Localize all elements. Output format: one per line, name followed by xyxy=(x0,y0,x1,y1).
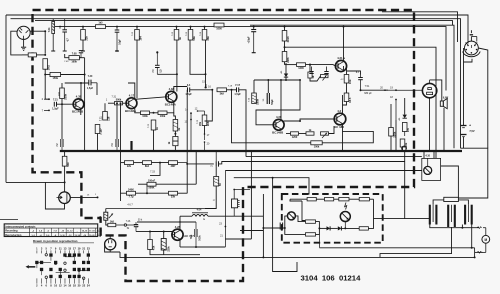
wire w row2 xyxy=(152,162,169,164)
svg-text:20: 20 xyxy=(380,87,383,90)
chassis shield dashed boundary xyxy=(33,10,415,281)
svg-text:4.21 a: 4.21 a xyxy=(337,56,345,60)
svg-text:1200: 1200 xyxy=(298,67,304,70)
node n R10 xyxy=(204,26,206,28)
wire osc w3 xyxy=(330,227,338,229)
wire w R15 down xyxy=(97,134,99,152)
wire w C10 up xyxy=(267,80,269,93)
bus lamp circle xyxy=(402,146,407,151)
svg-text:24: 24 xyxy=(87,284,90,288)
wire w R8 col xyxy=(176,40,178,92)
resistor R26 1k xyxy=(306,129,314,135)
svg-text:118: 118 xyxy=(106,116,110,121)
transistor Q4 BC148B xyxy=(272,115,284,134)
wire osc top wire2 xyxy=(316,198,324,200)
node n D1 xyxy=(285,79,287,81)
svg-text:13–14: 13–14 xyxy=(75,234,81,237)
svg-text:50: 50 xyxy=(263,98,265,101)
wire w R29 mid xyxy=(284,41,286,52)
wire w head stem xyxy=(109,250,111,252)
svg-text:4.1: 4.1 xyxy=(280,70,283,74)
capacitor C2 xyxy=(115,27,122,51)
resistor R17 100k xyxy=(141,111,150,118)
wire w r42 xyxy=(178,192,188,194)
svg-text:10µF: 10µF xyxy=(119,39,122,45)
wire w bat down xyxy=(463,137,465,149)
svg-text:180k: 180k xyxy=(255,98,259,104)
wire w Q6 coll xyxy=(343,27,345,62)
wire head loop xyxy=(45,182,64,209)
wire lamp1 r2 xyxy=(316,222,320,229)
node n R22 xyxy=(174,133,176,135)
trimmer TR1 xyxy=(309,67,313,74)
arrow flash xyxy=(345,203,347,210)
motor M1 xyxy=(477,227,490,254)
resistor R42 33k xyxy=(169,191,178,198)
diode D4 xyxy=(338,226,342,230)
node n R1 xyxy=(44,54,46,56)
svg-text:–6: –6 xyxy=(47,231,49,233)
transistor Q7 AC127 xyxy=(172,225,194,240)
svg-text:71.3: 71.3 xyxy=(191,234,193,239)
wire w R3 up xyxy=(82,27,84,30)
resistor R9 56k xyxy=(188,30,196,41)
wire left border vertical xyxy=(5,15,7,182)
svg-text:18: 18 xyxy=(73,284,76,288)
wire top bus E2 xyxy=(106,27,447,91)
node n C2 xyxy=(116,26,118,28)
wire w left col xyxy=(121,162,125,164)
wire xfrm tap3 xyxy=(471,225,473,248)
node n 187a xyxy=(186,163,188,165)
wire w R13 down xyxy=(61,99,63,105)
wire w R35 down xyxy=(64,166,66,192)
svg-text:1M: 1M xyxy=(31,59,34,62)
wire lampbox right xyxy=(441,166,459,197)
svg-text:7.3: 7.3 xyxy=(112,143,114,147)
svg-text:21: 21 xyxy=(82,246,85,250)
transformer T1 windings xyxy=(430,205,472,227)
svg-text:Interconnected contacts: Interconnected contacts xyxy=(6,224,37,228)
svg-text:220k: 220k xyxy=(167,246,170,252)
wire w L1 right xyxy=(208,215,263,217)
resistor R53 hatch xyxy=(173,122,177,128)
node n R9 xyxy=(190,26,192,28)
resistor R36 50 xyxy=(214,177,222,187)
wire w R35 up xyxy=(64,151,66,156)
resistor R28 1k xyxy=(308,72,315,79)
node 222a xyxy=(179,221,181,223)
wire w C12 link xyxy=(157,73,177,75)
wire w r32 dn xyxy=(390,136,392,151)
resistor R27 1200 xyxy=(291,132,299,139)
wire w 404 long xyxy=(404,151,406,219)
wire w C14 dn xyxy=(215,167,217,177)
svg-text:7.12: 7.12 xyxy=(100,127,102,132)
svg-text:7.06: 7.06 xyxy=(200,31,202,36)
wire w r41 xyxy=(136,192,169,194)
wire xfrm tap1 xyxy=(430,225,479,228)
svg-text:30 k: 30 k xyxy=(138,219,143,221)
svg-text:7.22: 7.22 xyxy=(148,123,150,128)
node n 263c xyxy=(262,256,264,258)
svg-text:11–12: 11–12 xyxy=(67,231,72,233)
svg-text:500k: 500k xyxy=(116,99,122,102)
svg-text:–2: –2 xyxy=(32,231,34,233)
node bus j10 xyxy=(245,150,247,152)
svg-text:17: 17 xyxy=(73,246,76,250)
wire lampbox feed1 xyxy=(423,151,425,158)
inductor L1 bias xyxy=(192,209,208,222)
node n lc xyxy=(120,102,122,104)
wire w R23 up xyxy=(253,80,255,93)
connector DIN xyxy=(463,30,481,57)
resistor R31 1k xyxy=(402,123,410,133)
resistor R21 2k6 xyxy=(199,115,210,126)
wire w R25 down xyxy=(343,102,347,106)
svg-text:100k: 100k xyxy=(314,145,320,148)
wire bottom 258 xyxy=(120,252,263,257)
wire 225 dn xyxy=(224,239,226,247)
node bus j17 xyxy=(402,150,404,152)
node stubs 13 14 xyxy=(190,112,192,151)
wire w left col2 xyxy=(121,163,127,194)
wire long wire C xyxy=(225,170,421,172)
wire drop 190 xyxy=(190,40,206,74)
resistor R10 36k xyxy=(202,30,210,41)
resistor R18 100k xyxy=(158,111,167,118)
wire w R22 up xyxy=(174,131,176,137)
wire mic stem xyxy=(23,39,25,46)
svg-text:7,5V: 7,5V xyxy=(469,129,475,133)
svg-text:1,5µF: 1,5µF xyxy=(234,93,241,96)
wire w r44 down xyxy=(150,250,200,255)
wire w C6 up xyxy=(61,104,63,139)
wire 142 right xyxy=(322,131,373,142)
wire w parts xyxy=(309,65,311,72)
svg-text:100k: 100k xyxy=(63,93,67,99)
svg-text:184: 184 xyxy=(138,36,142,41)
svg-text:4 6 7: 4 6 7 xyxy=(127,203,133,206)
wire w Q2 coll up xyxy=(128,83,135,99)
node n C12 xyxy=(176,73,178,75)
node n q7e xyxy=(195,246,197,248)
capacitor C13 10uF xyxy=(248,27,257,53)
wire w D1 down xyxy=(285,77,287,80)
wire drop 137 xyxy=(136,40,138,98)
node bus j7 xyxy=(190,150,192,152)
svg-text:100nF: 100nF xyxy=(148,179,156,182)
wire w C8 right xyxy=(190,89,212,91)
svg-text:50µF: 50µF xyxy=(271,99,274,105)
node n 263 xyxy=(262,227,264,229)
node stub 23 xyxy=(225,171,227,240)
svg-text:23: 23 xyxy=(219,223,222,226)
resistor R22 stack xyxy=(169,137,178,146)
wire top line D xyxy=(382,12,458,42)
svg-text:500k: 500k xyxy=(200,235,202,241)
svg-text:5k: 5k xyxy=(127,228,130,230)
svg-text:3104 106 01214: 3104 106 01214 xyxy=(301,274,362,283)
svg-text:4.17: 4.17 xyxy=(129,94,135,98)
node n Q1c xyxy=(80,82,82,84)
transistor Q6 AC187 xyxy=(335,56,346,72)
svg-text:1: 1 xyxy=(36,246,38,250)
resistor hatch R36 xyxy=(214,179,219,184)
svg-text:4,7: 4,7 xyxy=(66,38,69,42)
wire w Q6 emit xyxy=(343,66,345,71)
wire w 733 stub xyxy=(150,163,160,176)
wire w R9 xyxy=(190,27,192,30)
wire osc out down xyxy=(318,234,320,247)
wire w left rail mid xyxy=(254,79,300,81)
resistor R35 junc xyxy=(62,156,70,167)
svg-text:26k: 26k xyxy=(199,121,202,126)
svg-text:21: 21 xyxy=(220,235,223,238)
wire w left col up xyxy=(120,103,122,162)
svg-text:7.26: 7.26 xyxy=(126,221,131,223)
wire w r40 xyxy=(138,183,147,185)
svg-text:1,5µF: 1,5µF xyxy=(52,107,59,110)
svg-text:10: 10 xyxy=(54,284,57,288)
node n R12 xyxy=(309,64,311,66)
svg-text:4.10: 4.10 xyxy=(425,154,430,157)
wire long wire A xyxy=(246,156,422,158)
potentiometer P1 xyxy=(321,132,329,138)
wire w head left xyxy=(105,244,120,252)
wire q7 right xyxy=(196,246,225,248)
resistor R1 560 xyxy=(28,53,36,57)
wire w R22 dn xyxy=(174,146,176,151)
svg-text:240K: 240K xyxy=(128,188,134,191)
svg-text:4: 4 xyxy=(41,284,43,288)
wire vert 263b xyxy=(262,228,264,257)
svg-text:23–24: 23–24 xyxy=(97,234,103,237)
svg-text:2M7: 2M7 xyxy=(171,165,176,168)
wire w R7 xyxy=(136,27,138,30)
transistor Q1 BC149B xyxy=(72,95,84,114)
wire stray left xyxy=(0,219,18,221)
svg-text:7: 7 xyxy=(50,246,52,250)
wire w R19 down xyxy=(153,130,155,151)
wire w r45 up xyxy=(163,232,165,239)
svg-text:27: 27 xyxy=(213,200,216,202)
wire drop 187 xyxy=(186,90,188,193)
wire w 230 link xyxy=(240,230,263,232)
svg-text:7.08: 7.08 xyxy=(72,53,77,56)
wire w R24-R25 xyxy=(346,83,348,93)
wire lamp1 r xyxy=(295,216,305,222)
wire w R20 right xyxy=(227,89,237,91)
wire choke top xyxy=(233,189,250,199)
node bus j14 xyxy=(342,150,344,152)
svg-text:21–22: 21–22 xyxy=(97,231,102,233)
node n R30 xyxy=(284,46,286,48)
wire vert 251 xyxy=(250,151,252,239)
wire w Q5 emit xyxy=(342,124,344,151)
svg-text:12: 12 xyxy=(195,108,198,111)
wire head row xyxy=(106,208,216,210)
switch contact diagram xyxy=(26,246,91,287)
wire lampbox feed2 xyxy=(433,151,435,158)
node stub 15 xyxy=(205,84,207,88)
wire w R2 down xyxy=(45,69,49,99)
resistor R44 41k xyxy=(148,240,156,251)
wire w R8 xyxy=(176,27,178,30)
wire 142 left xyxy=(232,90,311,143)
resistor R47 xyxy=(325,198,334,201)
svg-text:10k: 10k xyxy=(348,79,352,84)
svg-text:0,5W: 0,5W xyxy=(443,98,449,100)
wire mic branch down xyxy=(44,31,46,54)
svg-text:1200: 1200 xyxy=(292,136,298,139)
svg-text:15: 15 xyxy=(68,246,71,250)
wire top line C xyxy=(35,21,453,26)
node bus j11 xyxy=(253,150,255,152)
wire w c16 link xyxy=(136,231,150,233)
wire w coil top xyxy=(105,209,107,213)
node stub 7 xyxy=(44,110,50,112)
svg-text:1k: 1k xyxy=(169,141,171,144)
svg-text:7.18: 7.18 xyxy=(228,86,233,88)
svg-text:19–20: 19–20 xyxy=(89,235,94,237)
capacitor C12 xyxy=(153,51,163,74)
node bus j3 xyxy=(116,150,118,152)
resistor R15 hat xyxy=(95,125,103,135)
wire w Q4 base xyxy=(260,124,274,126)
wire w R29 up xyxy=(284,27,286,31)
wire r44 up xyxy=(149,232,151,240)
capacitor C3 xyxy=(79,51,83,58)
transistor Q5 AC188 xyxy=(334,109,346,129)
wire w Q4 coll up xyxy=(280,80,282,120)
svg-text:22: 22 xyxy=(82,284,85,288)
capacitor C17 xyxy=(280,223,282,230)
wire head right lead xyxy=(70,196,97,198)
capacitor C15 xyxy=(191,222,202,247)
wire C14 up xyxy=(219,162,405,164)
svg-text:–10: –10 xyxy=(61,231,64,233)
resistor R19 1k xyxy=(151,120,159,130)
wire osc out 2 xyxy=(263,256,474,258)
svg-text:1k5: 1k5 xyxy=(98,22,103,25)
wire w left col3 xyxy=(120,193,122,201)
resistor R40 500k xyxy=(147,179,156,189)
svg-text:3k: 3k xyxy=(177,127,181,130)
wire w R5 left xyxy=(65,54,69,58)
wire w C4 to Q1 xyxy=(57,103,74,105)
node n 190 xyxy=(205,73,207,75)
svg-text:2: 2 xyxy=(42,97,44,101)
wire osc fork xyxy=(285,216,288,228)
svg-text:5–6: 5–6 xyxy=(46,235,49,237)
wire w stage1 top xyxy=(65,82,89,84)
transistor Q3 BC148A xyxy=(165,87,177,107)
lamp LA3 xyxy=(422,154,441,180)
svg-text:1W: 1W xyxy=(406,128,410,132)
svg-text:7.51: 7.51 xyxy=(365,85,370,88)
svg-text:6: 6 xyxy=(46,284,48,288)
wire w r45 down xyxy=(163,250,165,255)
svg-text:2k6: 2k6 xyxy=(206,121,210,126)
node n Q6c xyxy=(343,26,345,28)
svg-text:50: 50 xyxy=(218,183,222,186)
wire w R1 left xyxy=(22,54,28,56)
svg-text:1: 1 xyxy=(106,99,108,102)
resistor R38 8k2 xyxy=(143,161,152,168)
wire speaker down xyxy=(443,108,445,151)
wire w fb net xyxy=(256,80,300,125)
resistor R51 xyxy=(306,233,316,236)
svg-text:2M6: 2M6 xyxy=(286,57,290,63)
capacitor C11 680uF xyxy=(356,71,363,90)
resistor R2 2k2 xyxy=(43,59,51,71)
svg-text:7.02: 7.02 xyxy=(132,31,134,36)
svg-text:Reproduction: Reproduction xyxy=(5,234,22,237)
wire R5 right xyxy=(79,57,84,59)
node n r41 xyxy=(146,192,148,194)
svg-text:BC149B: BC149B xyxy=(72,110,83,114)
node n R8 xyxy=(176,26,178,28)
wire w osc entry xyxy=(263,227,284,229)
resistor hatch R23 xyxy=(252,95,256,103)
transformer frame xyxy=(433,197,468,204)
resistor R12 1000 xyxy=(297,63,306,70)
svg-text:12: 12 xyxy=(59,284,62,288)
node n R7 xyxy=(136,26,138,28)
node bus j4 xyxy=(136,150,138,152)
svg-text:+10µF: +10µF xyxy=(248,36,251,43)
wire vert 263 xyxy=(262,194,264,228)
wire feedback wire xyxy=(285,47,437,158)
wire head top wire xyxy=(6,181,65,183)
svg-text:≈: ≈ xyxy=(203,218,205,222)
wire w L1 up xyxy=(179,216,181,222)
node n lwD xyxy=(272,177,274,179)
wire choke bottom xyxy=(233,208,235,216)
svg-text:3.4: 3.4 xyxy=(187,84,191,87)
svg-text:41k: 41k xyxy=(151,245,155,250)
wire right link xyxy=(458,148,487,198)
node bus j16 xyxy=(395,150,397,152)
capacitor C6 xyxy=(57,139,63,151)
wire w Q2 emit xyxy=(135,107,141,113)
node bus j6 xyxy=(174,150,176,152)
resistor R23 180k xyxy=(252,93,260,105)
potentiometer P2 xyxy=(321,75,329,81)
svg-text:20: 20 xyxy=(78,284,81,288)
wire osc top wire5 xyxy=(369,198,373,200)
wire w R6 right xyxy=(61,74,85,76)
node n q7b1 xyxy=(149,231,151,233)
wire din bottom xyxy=(464,59,473,62)
node n xf3 xyxy=(471,247,473,249)
svg-text:15–16: 15–16 xyxy=(82,231,87,233)
node bus j9 xyxy=(215,150,217,152)
svg-text:15: 15 xyxy=(87,195,90,197)
wire osc top wire xyxy=(290,198,307,200)
svg-text:22k: 22k xyxy=(84,36,88,41)
svg-text:100k: 100k xyxy=(392,131,396,137)
wire w q7 coll xyxy=(179,222,181,230)
node n C7 xyxy=(116,102,118,104)
node bus j5 xyxy=(153,150,155,152)
wire w R16a xyxy=(108,102,115,104)
svg-text:56k: 56k xyxy=(192,36,196,41)
svg-text:F8: F8 xyxy=(59,25,62,28)
lamp LA1 xyxy=(287,212,295,220)
node n Q4c xyxy=(280,79,282,81)
